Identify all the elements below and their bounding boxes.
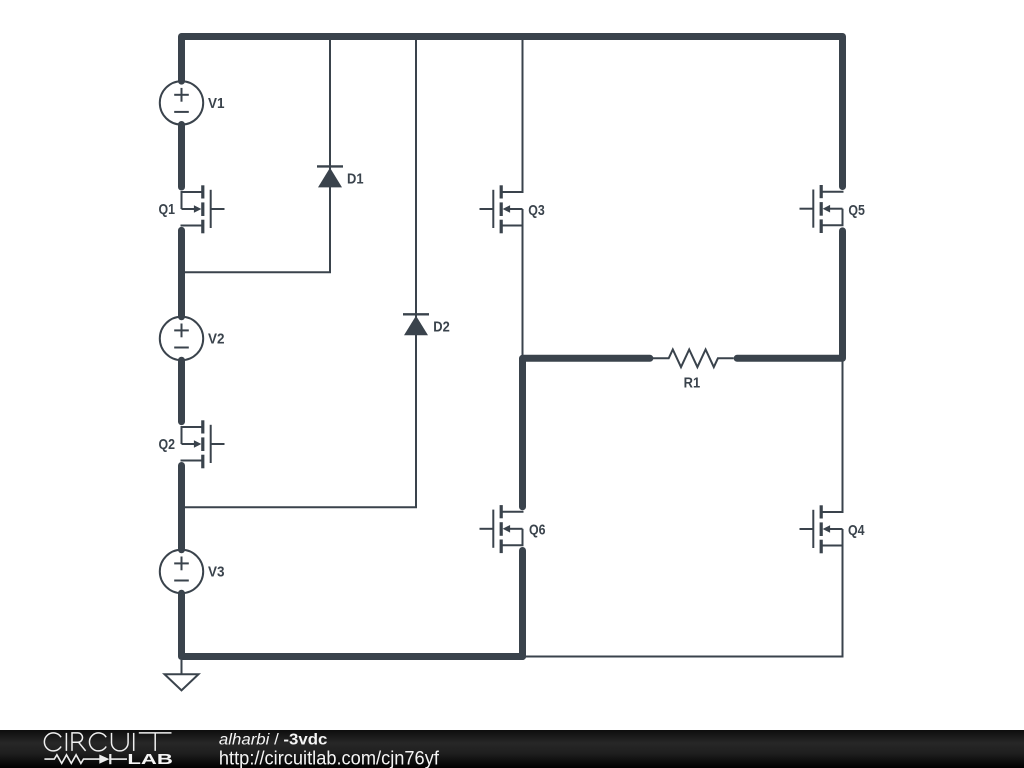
ground bbox=[165, 660, 199, 690]
svg-text:V1: V1 bbox=[208, 95, 225, 112]
wire R1 right lead, corner, up to Q5 source bbox=[737, 231, 842, 358]
wire R1 left lead, corner, down to Q6 drain bbox=[523, 358, 650, 507]
wire Q4 source down to bottom-right corner and left to bottom rail bbox=[523, 546, 843, 657]
transistor Q1 bbox=[181, 185, 225, 233]
voltage source V3 bbox=[160, 550, 203, 593]
svg-text:Q6: Q6 bbox=[529, 522, 546, 539]
svg-text:Q1: Q1 bbox=[159, 201, 176, 218]
transistor Q2 bbox=[181, 420, 225, 468]
wire Q2 to V3 with node at y=506 bbox=[178, 466, 185, 550]
svg-text:V2: V2 bbox=[208, 331, 225, 348]
svg-text:Q4: Q4 bbox=[848, 522, 865, 539]
svg-text:R1: R1 bbox=[684, 375, 701, 392]
wire V1 to Q1 bbox=[178, 125, 185, 188]
footer bar bbox=[0, 730, 1024, 768]
wire V2 to Q2 bbox=[178, 360, 185, 421]
wire D2 branch from top rail through diode down to node, tee left into rail bbox=[182, 40, 416, 507]
svg-text:D1: D1 bbox=[347, 170, 364, 187]
diode D2 bbox=[403, 314, 429, 335]
wire top rail with left and right corners bbox=[182, 37, 843, 187]
svg-text:V3: V3 bbox=[208, 564, 225, 581]
svg-text:Q2: Q2 bbox=[159, 436, 176, 453]
transistor Q6 bbox=[480, 505, 524, 553]
voltage source V2 bbox=[160, 317, 203, 360]
svg-text:Q3: Q3 bbox=[528, 202, 545, 219]
svg-text:LAB: LAB bbox=[127, 752, 173, 768]
transistor Q4 bbox=[800, 505, 844, 553]
CircuitLab logo CIRCUIT stroked letters bbox=[44, 733, 171, 751]
CircuitLab logo resistor zigzag bbox=[44, 755, 99, 764]
resistor R1 bbox=[653, 350, 734, 368]
wire Q3 source down to R1 left junction bbox=[522, 226, 524, 360]
transistor Q5 bbox=[800, 185, 844, 233]
transistor Q3 bbox=[480, 185, 524, 233]
CircuitLab logo diode symbol bbox=[99, 754, 127, 764]
diode D1 bbox=[317, 166, 343, 187]
svg-text:alharbi / -3vdc: alharbi / -3vdc bbox=[219, 732, 328, 749]
wire D1 branch from top rail through diode down to node, tee left into rail bbox=[182, 40, 330, 272]
wire Q6 source down to bottom rail bbox=[519, 551, 526, 657]
svg-text:http://circuitlab.com/cjn76yf: http://circuitlab.com/cjn76yf bbox=[219, 748, 440, 768]
wire top rail to Q3 drain bbox=[522, 40, 524, 193]
voltage source V1 bbox=[160, 81, 203, 124]
wire R1 right junction down to Q4 drain bbox=[842, 358, 844, 513]
svg-text:D2: D2 bbox=[433, 319, 450, 336]
svg-text:Q5: Q5 bbox=[848, 202, 865, 219]
wire V3 to bottom rail corner and bottom rail bbox=[182, 593, 523, 656]
wire Q1 to V2 with node at y=271.5 bbox=[178, 230, 185, 316]
